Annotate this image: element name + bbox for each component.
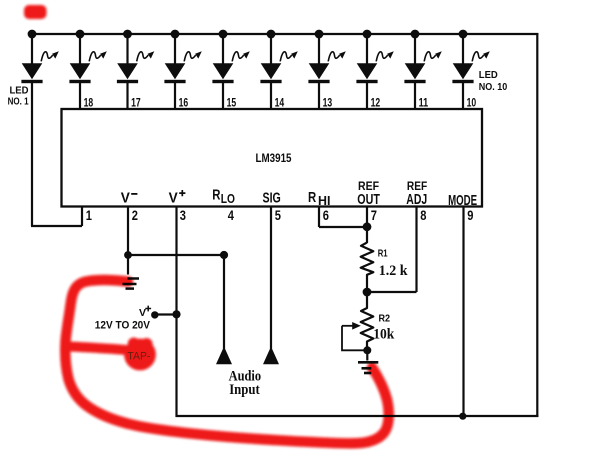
- svg-text:13: 13: [323, 98, 333, 110]
- LED D10 (LED NO. 10): [452, 34, 489, 110]
- svg-text:ADJ: ADJ: [406, 192, 427, 208]
- wire R2 wiper tie-down bracket: [342, 326, 367, 351]
- svg-text:R1: R1: [378, 248, 388, 260]
- LED D4 (LED NO. 4): [164, 34, 201, 110]
- red annotation middle arm stroke: [70, 347, 126, 351]
- svg-text:10k: 10k: [373, 327, 395, 343]
- svg-text:NO. 1: NO. 1: [8, 96, 29, 107]
- svg-text:6: 6: [323, 207, 329, 223]
- svg-text:NO. 10: NO. 10: [479, 82, 508, 93]
- label RLO (pin 4): [212, 188, 235, 207]
- node rail junction at LED D6 anode: [267, 30, 276, 39]
- svg-text:OUT: OUT: [357, 192, 380, 208]
- svg-text:TAP-: TAP-: [127, 350, 150, 362]
- node rail junction at LED D8 anode: [363, 30, 372, 39]
- audio input plug arrow (right): [263, 347, 279, 365]
- svg-text:15: 15: [227, 98, 237, 110]
- wire LED1 cathode to pin 1: [31, 225, 82, 227]
- LED D7 (LED NO. 7): [308, 34, 345, 110]
- node rail junction at LED D7 anode: [315, 30, 324, 39]
- wire bottom V+ bus: [176, 415, 539, 417]
- wire V- to RLO tie (pins 2-4): [128, 254, 224, 256]
- wire RHI to REF OUT tie (pins 6-7): [319, 226, 367, 228]
- LED D8 (LED NO. 8): [356, 34, 393, 110]
- svg-text:LM3915: LM3915: [256, 151, 292, 165]
- svg-text:12V TO 20V: 12V TO 20V: [95, 320, 151, 332]
- label RHI (pin 6): [308, 190, 330, 208]
- svg-text:REF: REF: [358, 179, 379, 193]
- pin 9 stub wire (MODE) down to bottom bus: [462, 207, 464, 417]
- node rail junction at LED D4 anode: [171, 30, 180, 39]
- node pin3 / V+ junction: [172, 310, 180, 318]
- svg-text:Input: Input: [229, 382, 260, 398]
- pin 3 stub wire (V+): [175, 207, 177, 315]
- node rail junction at LED D2 anode: [76, 30, 85, 39]
- pin 6 stub wire (RHI): [318, 207, 320, 228]
- svg-text:5: 5: [275, 207, 281, 223]
- node rail junction at LED D9 anode: [411, 30, 420, 39]
- pin 2 stub wire (V-): [127, 207, 129, 256]
- svg-text:18: 18: [84, 98, 94, 110]
- node pin4 junction: [220, 251, 228, 259]
- svg-text:9: 9: [467, 207, 473, 223]
- svg-text:10: 10: [467, 98, 477, 110]
- svg-text:MODE: MODE: [448, 192, 477, 209]
- svg-text:V: V: [169, 191, 178, 207]
- ground at R2: [358, 362, 378, 373]
- LED D9 (LED NO. 9): [404, 34, 441, 110]
- LED D5 (LED NO. 5): [212, 34, 249, 110]
- svg-text:LO: LO: [221, 192, 235, 206]
- label V- (pin 2): [121, 191, 138, 207]
- svg-text:8: 8: [420, 207, 426, 223]
- svg-text:7: 7: [371, 207, 377, 223]
- svg-text:R: R: [308, 190, 317, 206]
- wire right-side V+ riser (rail to bottom wire): [536, 33, 538, 417]
- svg-text:V: V: [121, 191, 130, 207]
- svg-text:SIG: SIG: [263, 191, 281, 207]
- wire LED anode supply rail (top): [31, 33, 538, 35]
- wire REF ADJ to R1 bottom: [367, 291, 417, 293]
- svg-text:16: 16: [179, 98, 189, 110]
- svg-text:14: 14: [275, 98, 285, 110]
- label REF OUT (pin 7): [357, 179, 380, 208]
- node rail junction at LED D10 anode: [459, 30, 468, 39]
- audio input plug arrow (left): [216, 347, 232, 365]
- resistor R1: [361, 243, 374, 293]
- svg-text:1: 1: [86, 207, 92, 223]
- red annotation blob around TAP: [124, 338, 156, 371]
- red annotation marker box (top-left): [24, 5, 47, 19]
- svg-text:V: V: [139, 307, 146, 319]
- node pin2 junction: [124, 251, 132, 259]
- pin 7 stub wire (REF OUT): [366, 207, 368, 244]
- wire pin3 V+ drop to bottom bus: [175, 314, 177, 417]
- label Audio Input: [229, 368, 262, 398]
- wire R2 ground stub: [366, 350, 368, 360]
- LED D2 (LED NO. 2): [69, 34, 106, 110]
- node V+ supply terminal: [151, 311, 158, 318]
- label V+ (pin 3): [169, 190, 186, 207]
- node rail junction at LED D1 anode: [28, 30, 37, 39]
- svg-text:R: R: [212, 188, 221, 204]
- label LED NO. 10: [479, 70, 508, 93]
- svg-text:4: 4: [228, 207, 234, 223]
- op-amp U1 LM3915 IC body: [62, 109, 483, 207]
- potentiometer R2 body: [361, 292, 374, 350]
- svg-text:LED: LED: [10, 85, 29, 96]
- svg-text:REF: REF: [407, 179, 427, 193]
- svg-text:12: 12: [371, 98, 381, 110]
- svg-text:1.2 k: 1.2 k: [379, 263, 408, 279]
- wire pin2 ground stub: [127, 255, 129, 275]
- pin 8 stub wire (REF ADJ): [415, 207, 417, 293]
- node R1/R2/REF ADJ junction: [363, 288, 372, 297]
- red annotation main loop stroke: [65, 280, 388, 443]
- svg-text:11: 11: [419, 98, 429, 110]
- label V+ supply: [139, 306, 151, 319]
- label REF ADJ (pin 8): [406, 179, 427, 208]
- node MODE / bottom bus junction: [459, 413, 466, 420]
- LED D6 (LED NO. 6): [260, 34, 297, 110]
- wire pin 4 (RLO) down to audio input: [223, 255, 225, 349]
- LED D1 (LED NO. 1): [21, 34, 58, 226]
- node rail junction at LED D3 anode: [123, 30, 132, 39]
- svg-text:LED: LED: [479, 70, 498, 81]
- svg-text:3: 3: [180, 207, 186, 223]
- svg-text:R2: R2: [379, 313, 391, 325]
- node R2 bottom junction: [363, 346, 371, 354]
- ground at pin 2 (V-): [123, 279, 140, 289]
- LED D3 (LED NO. 3): [117, 34, 154, 110]
- wire V+ supply stub: [155, 313, 177, 315]
- pin 1 stub wire: [81, 207, 83, 227]
- node rail junction at LED D5 anode: [219, 30, 228, 39]
- pin 5 stub wire (SIG) down to audio input: [270, 207, 272, 350]
- potentiometer R2 wiper arrow: [342, 322, 361, 330]
- svg-text:17: 17: [131, 98, 141, 110]
- svg-text:HI: HI: [318, 194, 330, 208]
- label LED NO. 1: [8, 85, 29, 107]
- node pin7 junction: [363, 222, 372, 231]
- svg-text:2: 2: [132, 207, 138, 223]
